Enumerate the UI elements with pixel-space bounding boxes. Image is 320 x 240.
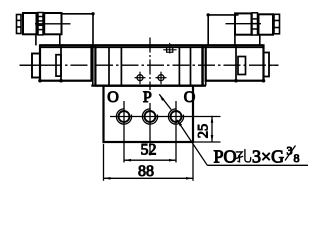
right connector mounting stems bbox=[234, 35, 236, 46]
port O right circle bbox=[168, 101, 183, 163]
svg-text:PO: PO bbox=[214, 146, 237, 166]
right connector centerline tick bbox=[226, 23, 262, 25]
junction dot right wire bbox=[207, 13, 210, 16]
pilot screw left bbox=[135, 72, 146, 85]
right connector washer stack C' bbox=[252, 13, 258, 35]
junction dots right coil bottom bbox=[234, 79, 238, 83]
dimension 52 bbox=[124, 159, 176, 162]
left connector gland body B bbox=[23, 13, 37, 34]
left connector plug housing D bbox=[44, 13, 61, 34]
leader underline bbox=[207, 164, 308, 166]
right connector plug housing D' bbox=[235, 13, 252, 34]
top rail double line over coils and body bbox=[40, 44, 264, 46]
svg-text:88: 88 bbox=[138, 163, 154, 180]
right connector cable gland stack A' bbox=[274, 14, 280, 34]
leader lower segment with arrow bbox=[177, 120, 207, 166]
svg-text:O: O bbox=[184, 89, 196, 106]
dimension 25 bbox=[211, 116, 214, 142]
left manual override nub bbox=[32, 54, 40, 78]
port O left circle bbox=[116, 101, 131, 163]
dimension 88 bbox=[104, 177, 194, 180]
dimension 88 extension lines bbox=[103, 144, 105, 181]
mounting sub-plate bbox=[104, 86, 194, 142]
leader upper segment with arrow bbox=[159, 94, 171, 109]
top tab screw bbox=[163, 43, 176, 54]
svg-text:25: 25 bbox=[196, 124, 212, 139]
svg-text:O: O bbox=[107, 89, 119, 106]
body bottom line extended bbox=[91, 84, 206, 86]
vertical axis of P port through body bbox=[149, 38, 151, 91]
svg-text:52: 52 bbox=[141, 142, 157, 159]
pilot screw right bbox=[156, 72, 167, 85]
left connector centerline tick bbox=[35, 23, 71, 25]
left connector cable gland stack A bbox=[17, 15, 22, 34]
body internal verticals bbox=[108, 47, 110, 85]
right adapter plate bbox=[202, 45, 204, 85]
right coil divider bbox=[235, 45, 237, 80]
right armature rect bbox=[238, 57, 246, 75]
main horizontal centerline bbox=[20, 64, 279, 66]
right solenoid coil block bbox=[206, 45, 264, 80]
left coil divider bbox=[60, 45, 62, 80]
left connector washer stack C bbox=[38, 13, 43, 35]
junction dots left coil bottom bbox=[38, 79, 42, 83]
left connector wire to body bbox=[62, 14, 94, 46]
svg-text:8: 8 bbox=[294, 151, 300, 165]
left adapter plate bbox=[92, 45, 94, 85]
svg-text:3×G: 3×G bbox=[252, 146, 284, 166]
hand-drawn CJK glyph kong bbox=[235, 150, 250, 162]
left armature rect bbox=[56, 55, 61, 76]
left connector mounting stems bbox=[35, 34, 37, 45]
junction dot left wire bbox=[91, 12, 94, 15]
dimension 25 bottom extension bbox=[194, 141, 221, 143]
port P circle bbox=[142, 103, 157, 156]
right connector wire to body bbox=[208, 15, 238, 46]
ports horizontal crosshair bbox=[110, 116, 221, 118]
left solenoid coil block bbox=[40, 45, 92, 80]
right connector gland body B' bbox=[259, 14, 274, 34]
valve body bbox=[95, 45, 202, 85]
right manual override nub bbox=[264, 53, 270, 77]
